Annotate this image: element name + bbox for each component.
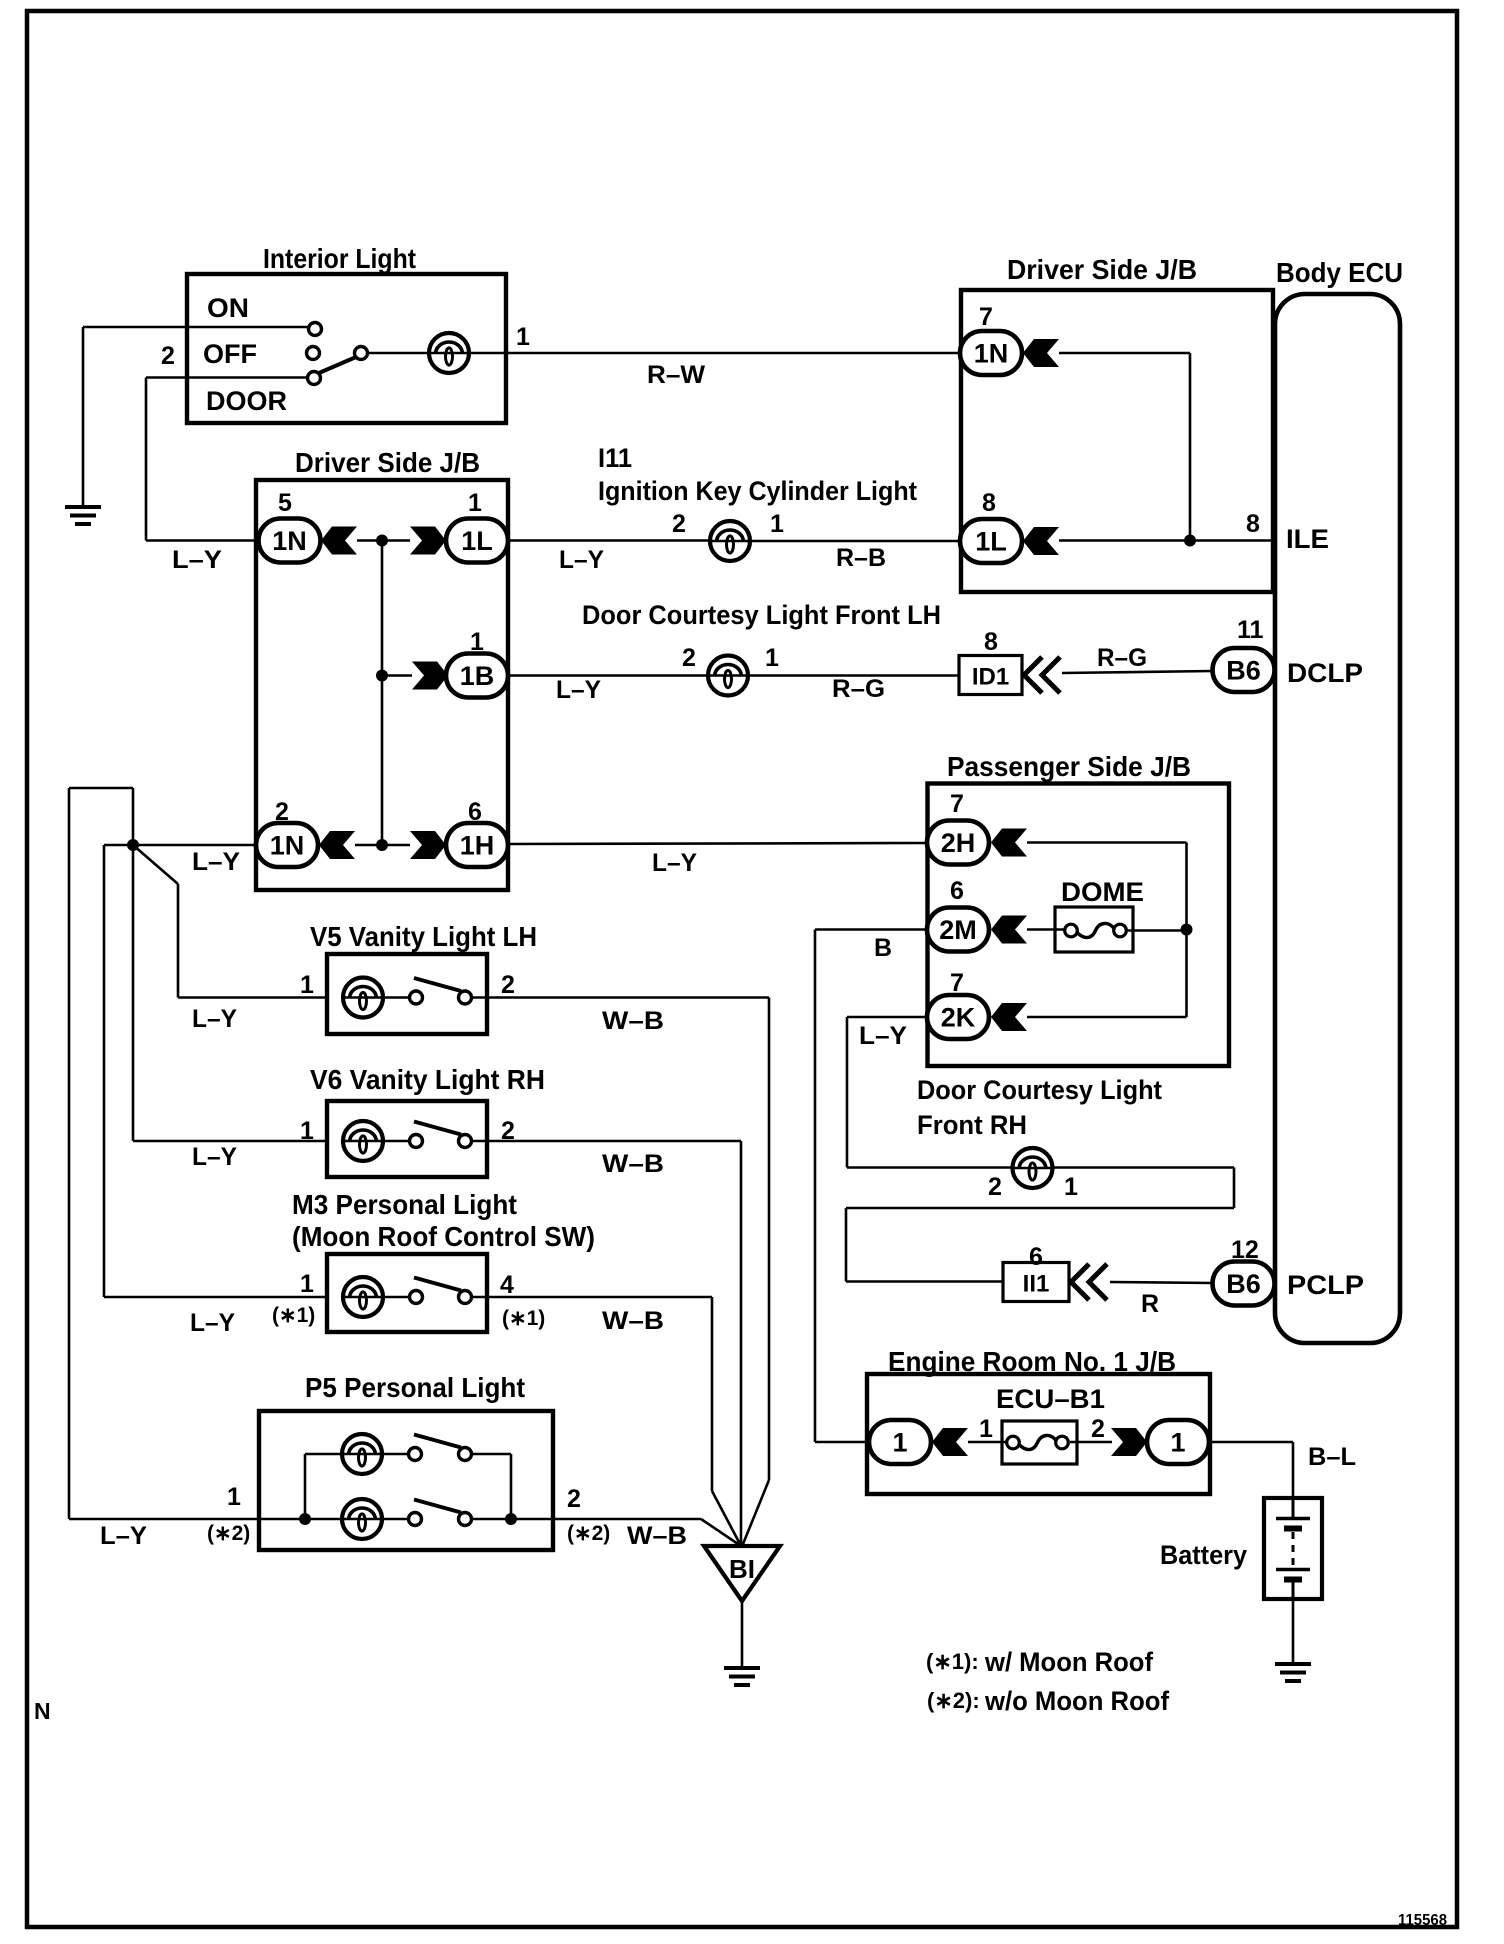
wire bus drop to V6 — [132, 845, 135, 1141]
svg-text:L–Y: L–Y — [172, 546, 222, 574]
svg-text:7: 7 — [979, 303, 993, 331]
fuse DOME element — [1065, 923, 1127, 937]
wire ground drop from ON — [82, 327, 85, 507]
lamp V6 — [343, 1121, 383, 1161]
connector 1N pin7 right JB — [960, 331, 1022, 375]
component Engine Room No.1 J/B box — [867, 1374, 1210, 1494]
svg-text:1L: 1L — [975, 527, 1007, 557]
fuse ECU-B1 element — [1007, 1435, 1069, 1449]
component V5 vanity light box — [327, 954, 487, 1034]
svg-text:(∗1): (∗1) — [502, 1307, 545, 1330]
arrow at 2K — [991, 1003, 1027, 1031]
wire fuse to arrow — [1070, 1441, 1112, 1444]
wire M3 feed into pin1 — [104, 1296, 328, 1299]
wire I11 to 1L pin8, net R-B — [750, 540, 961, 543]
svg-text:OFF: OFF — [203, 339, 257, 369]
svg-text:W–B: W–B — [602, 1150, 664, 1178]
switch contact P5 lower right — [459, 1513, 472, 1526]
connector B6 DCLP — [1213, 648, 1275, 692]
switch contact V5 right — [459, 991, 472, 1004]
svg-text:N: N — [34, 1698, 51, 1724]
wire battery to ground — [1292, 1599, 1295, 1664]
wire 1B to courtesy lamp LH, net L-Y — [508, 674, 708, 677]
wire into courtesy RH lamp pin2 — [847, 1166, 1013, 1169]
junction left bus — [127, 839, 139, 851]
svg-text:DOME: DOME — [1061, 877, 1144, 907]
switch arm V6 — [414, 1122, 461, 1135]
wire 2K arrow to internal vertical — [1027, 1016, 1187, 1019]
wire V6 feed into pin1 — [133, 1140, 328, 1143]
wire bus to 1B arrow — [382, 674, 412, 677]
lamp door courtesy front RH — [1013, 1148, 1053, 1188]
wire V6 W-B drop to BI — [740, 1141, 743, 1546]
fuse ECU-B1 box — [1002, 1421, 1077, 1464]
wire P5 right vertical — [510, 1454, 513, 1519]
svg-text:2: 2 — [161, 342, 175, 370]
svg-text:1: 1 — [770, 510, 784, 538]
svg-text:1: 1 — [516, 323, 530, 351]
switch contact P5 upper left — [409, 1448, 422, 1461]
wire V5 lamp to switch — [383, 996, 410, 999]
svg-text:6: 6 — [1029, 1243, 1043, 1271]
connector 2M pin6 — [927, 908, 989, 952]
wire bus top horizontal — [69, 787, 133, 790]
switch contact DOOR — [308, 372, 321, 385]
wire ID1 to B6, net R-G — [1062, 671, 1213, 673]
component Driver Side J/B (right) box — [961, 290, 1273, 592]
svg-text:II1: II1 — [1023, 1271, 1050, 1298]
svg-text:W–B: W–B — [602, 1307, 664, 1335]
wire engine room to battery, net B-L — [1209, 1441, 1293, 1444]
svg-text:L–Y: L–Y — [192, 1143, 237, 1171]
component Driver Side J/B (left) box — [256, 480, 508, 890]
svg-text:B: B — [874, 934, 892, 962]
wire drop DOOR to 1N — [145, 378, 148, 541]
wire pole to lamp — [367, 352, 430, 355]
svg-text:R–G: R–G — [1097, 644, 1147, 672]
wire P5 top row to right vertical — [471, 1453, 511, 1456]
svg-text:L–Y: L–Y — [559, 546, 604, 574]
wire drop to II1 row — [845, 1208, 848, 1282]
wire P5 left vertical — [304, 1454, 307, 1519]
svg-text:2: 2 — [501, 971, 515, 999]
wire P5 bottom lamp to switch — [382, 1518, 409, 1521]
arrow at engine room right — [1111, 1428, 1147, 1456]
lamp door courtesy front LH — [708, 656, 748, 696]
svg-text:(∗2): (∗2) — [207, 1522, 250, 1545]
svg-text:ON: ON — [207, 293, 249, 323]
component Battery box — [1264, 1498, 1322, 1599]
lamp P5 upper — [342, 1434, 382, 1474]
svg-text:6: 6 — [950, 877, 964, 905]
junction P5 right — [505, 1513, 517, 1525]
svg-text:1: 1 — [892, 1428, 907, 1458]
wire 2K drop to courtesy RH lamp — [846, 1017, 849, 1168]
wire bus into P5 pin1 — [69, 1518, 260, 1521]
arrow at 1N pin2 — [319, 831, 355, 859]
wire 2M arrow to DOME — [1027, 928, 1064, 931]
wire P5 top row feed — [305, 1453, 343, 1456]
svg-text:1H: 1H — [460, 831, 495, 861]
svg-text:2: 2 — [567, 1485, 581, 1513]
lamp P5 lower — [342, 1499, 382, 1539]
switch contact M3 left — [410, 1291, 423, 1304]
fuse DOME box — [1055, 907, 1133, 952]
wire M3 pin4 out, net W-B — [471, 1296, 712, 1299]
connector chevrons at ID1 — [1024, 657, 1060, 693]
svg-text:4: 4 — [500, 1271, 514, 1299]
svg-text:DOOR: DOOR — [206, 386, 287, 416]
svg-text:R: R — [1141, 1290, 1159, 1318]
svg-text:8: 8 — [1246, 510, 1260, 538]
wire 1N2 to 1H — [355, 844, 410, 847]
arrow at 1H — [410, 831, 446, 859]
component Interior Light box — [187, 274, 506, 423]
svg-text:Battery: Battery — [1160, 1540, 1247, 1570]
ground point BI triangle — [704, 1546, 780, 1601]
arrow at engine room left — [932, 1428, 968, 1456]
connector 1H pin6 — [446, 823, 508, 867]
svg-text:Driver Side J/B: Driver Side J/B — [295, 447, 480, 478]
svg-text:ID1: ID1 — [972, 664, 1009, 691]
wire into engine room JB connector — [815, 1441, 869, 1444]
svg-text:w/o Moon Roof: w/o Moon Roof — [984, 1686, 1170, 1716]
wire return horizontal — [846, 1207, 1234, 1210]
wire V5 W-B diagonal to BI — [743, 1480, 769, 1544]
svg-text:(∗2):: (∗2): — [927, 1688, 980, 1713]
svg-text:(Moon Roof Control SW): (Moon Roof Control SW) — [292, 1221, 595, 1252]
svg-text:W–B: W–B — [602, 1007, 664, 1035]
svg-text:W–B: W–B — [627, 1522, 687, 1550]
svg-text:2: 2 — [988, 1173, 1002, 1201]
svg-text:P5 Personal Light: P5 Personal Light — [305, 1372, 525, 1403]
svg-text:L–Y: L–Y — [556, 676, 601, 704]
svg-text:1: 1 — [1170, 1428, 1185, 1458]
svg-text:L–Y: L–Y — [190, 1309, 235, 1337]
wire 2H arrow to internal vertical — [1027, 841, 1187, 844]
switch arm M3 — [414, 1278, 461, 1291]
svg-text:115568: 115568 — [1398, 1912, 1447, 1929]
connector 1 engine room right — [1147, 1420, 1209, 1464]
lamp I11 ignition key cylinder light — [710, 521, 750, 561]
component Body ECU outline — [1275, 294, 1400, 1343]
wire 2M to left, net B — [815, 928, 927, 931]
arrow at 1L pin1 — [410, 527, 446, 555]
switch contact OFF — [307, 347, 320, 360]
svg-text:1: 1 — [468, 489, 482, 517]
svg-text:L–Y: L–Y — [192, 1005, 237, 1033]
switch pole contact — [355, 347, 368, 360]
svg-text:1: 1 — [765, 644, 779, 672]
svg-text:Ignition Key Cylinder Light: Ignition Key Cylinder Light — [598, 476, 917, 506]
component P5 personal light box — [259, 1411, 553, 1550]
wire 1H to 2H long L-Y — [508, 843, 927, 844]
arrow at 2M — [991, 916, 1027, 944]
svg-text:1N: 1N — [270, 831, 305, 861]
svg-text:1: 1 — [227, 1483, 241, 1511]
svg-text:ILE: ILE — [1286, 524, 1329, 554]
svg-text:1: 1 — [300, 1117, 314, 1145]
connector chevrons at II1 — [1071, 1264, 1107, 1300]
svg-text:M3 Personal Light: M3 Personal Light — [292, 1189, 517, 1220]
svg-text:V6 Vanity Light RH: V6 Vanity Light RH — [310, 1064, 545, 1095]
ground below battery — [1275, 1664, 1311, 1681]
svg-text:(∗1): (∗1) — [272, 1304, 315, 1327]
svg-text:R–W: R–W — [647, 361, 705, 389]
svg-text:2M: 2M — [939, 915, 977, 945]
switch contact M3 right — [459, 1291, 472, 1304]
svg-text:1: 1 — [300, 1270, 314, 1298]
connector 2K pin7 — [927, 995, 989, 1039]
wire P5 bottom row feed — [260, 1518, 343, 1521]
svg-text:1: 1 — [979, 1415, 993, 1443]
svg-text:L–Y: L–Y — [859, 1022, 907, 1050]
junction P5 left — [299, 1513, 311, 1525]
wire drop right of RH lamp — [1233, 1168, 1236, 1209]
wire DOOR contact to left — [146, 376, 308, 379]
wire M3 W-B diagonal to BI — [712, 1491, 740, 1544]
wire 2M drop to engine room JB — [814, 930, 817, 1443]
svg-text:B6: B6 — [1226, 656, 1261, 686]
wire into II1 — [846, 1280, 1003, 1283]
lamp M3 — [343, 1277, 383, 1317]
wire bus left drop to P5 — [68, 788, 71, 1519]
wire V5 feed into pin1 — [178, 996, 328, 999]
svg-text:2: 2 — [682, 644, 696, 672]
switch contact V6 right — [459, 1135, 472, 1148]
svg-text:PCLP: PCLP — [1287, 1270, 1364, 1300]
wire V6 pin2 out, net W-B — [471, 1140, 741, 1143]
arrow at 2H — [991, 829, 1027, 857]
switch contact P5 lower left — [409, 1513, 422, 1526]
wire P5 top lamp to switch — [382, 1453, 409, 1456]
svg-text:Body ECU: Body ECU — [1276, 257, 1403, 288]
svg-text:DCLP: DCLP — [1287, 658, 1363, 688]
svg-text:Driver Side J/B: Driver Side J/B — [1007, 254, 1197, 285]
svg-text:1: 1 — [1064, 1173, 1078, 1201]
battery cell symbol — [1276, 1498, 1310, 1599]
svg-text:(∗1):: (∗1): — [926, 1649, 979, 1674]
wire DOME to internal vertical — [1127, 929, 1187, 932]
svg-text:Door Courtesy Light: Door Courtesy Light — [917, 1075, 1162, 1105]
svg-text:1N: 1N — [974, 339, 1009, 369]
svg-text:R–B: R–B — [836, 544, 886, 572]
wire P5 W-B diagonal to BI — [701, 1519, 741, 1546]
wire into 1N pin5 — [146, 539, 259, 542]
svg-text:2K: 2K — [941, 1003, 976, 1033]
svg-text:7: 7 — [950, 790, 964, 818]
arrow at 1B — [412, 662, 448, 690]
svg-text:2H: 2H — [941, 828, 976, 858]
wire V5 W-B drop — [768, 998, 771, 1481]
switch arm V5 — [414, 978, 461, 991]
svg-text:1L: 1L — [461, 526, 493, 556]
connector 1 engine room left — [869, 1420, 931, 1464]
svg-text:8: 8 — [984, 628, 998, 656]
svg-text:2: 2 — [672, 510, 686, 538]
wire ON contact to left — [83, 326, 309, 329]
wire diagonal to V5 feed — [133, 845, 178, 884]
wire internal vertical 2H to 2K — [1185, 843, 1188, 1018]
connector II1 junction block — [1003, 1263, 1069, 1302]
svg-text:R–G: R–G — [832, 675, 885, 703]
switch arm P5 lower — [414, 1500, 461, 1513]
svg-text:I11: I11 — [598, 443, 632, 473]
lamp V5 — [343, 978, 383, 1018]
wire R-W interior light pin1 to 1N pin7 — [469, 352, 961, 355]
wire arrow to fuse — [968, 1441, 1006, 1444]
connector 1L pin8 right JB — [960, 519, 1022, 563]
ground below BI — [724, 1668, 760, 1685]
connector 1B pin1 — [446, 654, 508, 698]
connector 1N pin5 — [259, 519, 321, 563]
svg-text:V5 Vanity Light LH: V5 Vanity Light LH — [310, 921, 537, 952]
connector B6 PCLP — [1213, 1262, 1275, 1306]
arrow at 1L pin8 — [1023, 527, 1059, 555]
wire internal bus vertical — [381, 541, 384, 846]
svg-text:L–Y: L–Y — [652, 849, 697, 877]
svg-text:Passenger Side J/B: Passenger Side J/B — [947, 751, 1191, 782]
svg-text:w/ Moon Roof: w/ Moon Roof — [984, 1647, 1154, 1677]
component V6 vanity light box — [327, 1101, 487, 1177]
wire courtesy LH to ID1, net R-G — [748, 674, 959, 677]
svg-text:ECU–B1: ECU–B1 — [996, 1384, 1105, 1414]
wire II1 to B6 PCLP, net R — [1110, 1282, 1213, 1283]
wire drop to battery — [1292, 1442, 1295, 1500]
svg-text:8: 8 — [982, 489, 996, 517]
wire V6 lamp to switch — [383, 1140, 410, 1143]
wire bus up segment — [132, 788, 135, 845]
connector ID1 junction block — [959, 656, 1022, 695]
wire M3 bus drop — [103, 845, 106, 1297]
wire V5 feed drop — [177, 884, 180, 998]
svg-text:BI: BI — [729, 1554, 755, 1584]
switch contact V5 left — [410, 991, 423, 1004]
svg-text:5: 5 — [278, 489, 292, 517]
arrow at 1N pin5 — [321, 527, 357, 555]
junction DOME to vertical — [1181, 924, 1193, 936]
wire BI to ground — [741, 1601, 744, 1668]
switch contact ON — [309, 323, 322, 336]
component M3 personal light box — [327, 1254, 487, 1332]
wire drop junction to ILE wire — [1189, 353, 1192, 540]
wire 1L8 to Body ECU ILE — [1059, 539, 1275, 542]
wire M3 lamp to switch — [383, 1296, 410, 1299]
connector 1N pin2 — [256, 823, 318, 867]
svg-text:1B: 1B — [460, 661, 495, 691]
switch contact P5 upper right — [459, 1448, 472, 1461]
arrow at 1N pin7 — [1023, 339, 1059, 367]
wire 1N2 to left bus — [104, 844, 256, 847]
switch arm P5 upper — [414, 1435, 461, 1448]
wire M3 W-B drop — [711, 1297, 714, 1491]
wire 1N7 to junction — [1059, 352, 1190, 355]
svg-text:Door Courtesy Light Front LH: Door Courtesy Light Front LH — [582, 600, 941, 630]
component Passenger Side J/B box — [928, 784, 1230, 1067]
switch contact V6 left — [410, 1135, 423, 1148]
svg-text:Front RH: Front RH — [917, 1110, 1027, 1140]
junction top of internal bus — [376, 535, 388, 547]
junction on ILE wire — [1184, 535, 1196, 547]
wire 1N5 to 1L1 — [357, 539, 410, 542]
lamp interior light — [429, 333, 469, 373]
svg-text:B–L: B–L — [1308, 1443, 1356, 1471]
ground G1 interior light — [65, 507, 101, 524]
svg-text:1: 1 — [300, 971, 314, 999]
svg-text:11: 11 — [1237, 616, 1264, 644]
svg-text:1N: 1N — [272, 526, 307, 556]
junction bus to 1B — [376, 670, 388, 682]
wire P5 pin2 out, net W-B — [471, 1518, 701, 1521]
svg-text:2: 2 — [1091, 1415, 1105, 1443]
wire 1L to I11 lamp, net L-Y — [508, 539, 710, 542]
svg-text:L–Y: L–Y — [192, 848, 240, 876]
svg-text:L–Y: L–Y — [100, 1522, 147, 1550]
wire V5 pin2 out, net W-B — [471, 996, 769, 999]
junction bus bottom — [376, 839, 388, 851]
svg-text:B6: B6 — [1226, 1269, 1261, 1299]
svg-text:Interior Light: Interior Light — [263, 243, 416, 274]
wire 2K to left, net L-Y — [847, 1016, 927, 1019]
switch arm interior light — [319, 357, 356, 373]
connector 1L pin1 — [446, 519, 508, 563]
svg-text:(∗2): (∗2) — [567, 1522, 610, 1545]
wire courtesy RH pin1 to right — [1052, 1166, 1234, 1169]
connector 2H pin7 — [927, 821, 989, 865]
